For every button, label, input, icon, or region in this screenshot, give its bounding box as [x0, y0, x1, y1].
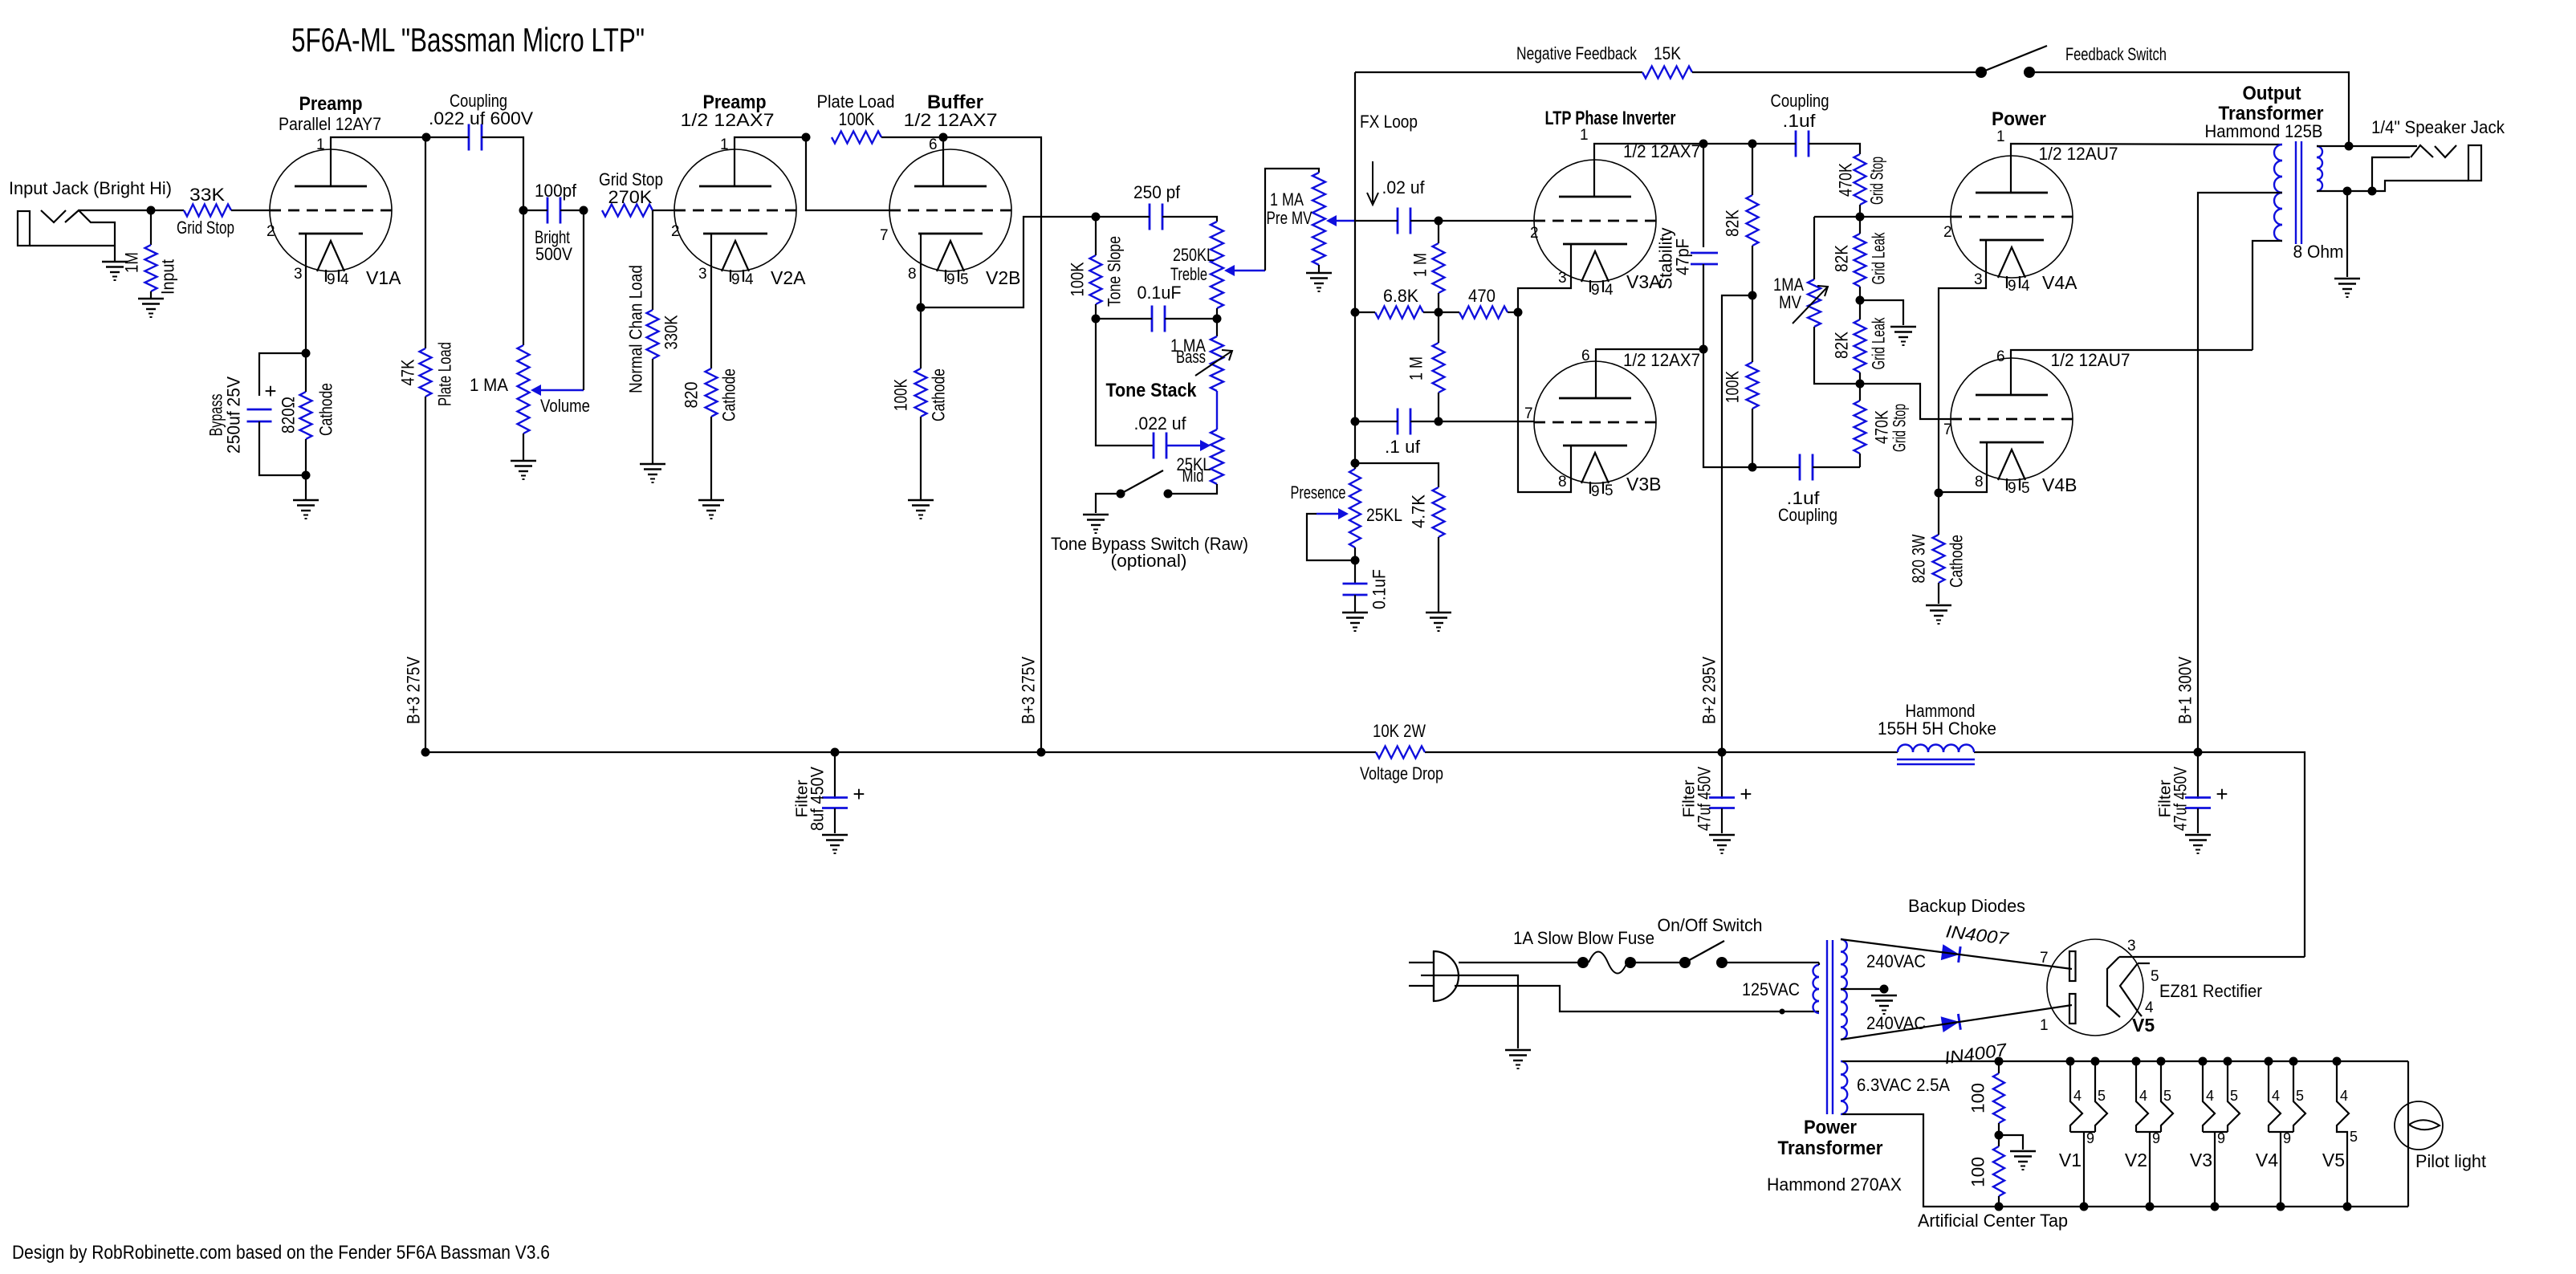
- label 100K (plate V3B): [1723, 371, 1743, 403]
- svg-text:240VAC: 240VAC: [1866, 951, 1926, 971]
- label 8uf 450V: [808, 767, 828, 831]
- pin 5 V2B: [960, 271, 969, 288]
- switch lever (feedback): [1981, 46, 2047, 72]
- wire speaker ground link: [2347, 190, 2372, 192]
- svg-text:5: 5: [2350, 1129, 2358, 1145]
- wire coupling lower to 470K: [1813, 466, 1860, 468]
- junction V2B cathode: [917, 303, 926, 312]
- wiper arrow volume: [531, 385, 584, 396]
- svg-text:5: 5: [960, 271, 969, 288]
- ground (power cathode): [1926, 605, 1951, 624]
- label V3A: [1626, 271, 1662, 292]
- ground (Pre MV): [1306, 273, 1332, 291]
- wiper arrow mid: [1166, 440, 1211, 451]
- label 100 (lower): [1968, 1157, 1988, 1187]
- svg-text:100: 100: [1968, 1157, 1988, 1187]
- wire AC neutral: [1455, 986, 1819, 1011]
- svg-text:4: 4: [2021, 278, 2030, 295]
- svg-text:7: 7: [2040, 950, 2049, 967]
- pin 1 V2A: [720, 136, 729, 153]
- svg-text:2: 2: [1943, 224, 1952, 241]
- svg-text:5: 5: [2163, 1088, 2171, 1104]
- junction heater 100 top: [1995, 1057, 2004, 1066]
- capacitor .022uf mid: [1154, 433, 1166, 459]
- label Tone Bypass Switch (Raw): [1051, 534, 1248, 554]
- wire B+2 feed: [1722, 295, 1752, 752]
- svg-text:Grid Stop: Grid Stop: [1890, 404, 1910, 452]
- svg-text:V2B: V2B: [986, 267, 1020, 288]
- wire coupling upper to 470K: [1809, 144, 1860, 154]
- resistor 15K feedback: [1642, 67, 1692, 79]
- pin 6 V2B: [929, 136, 938, 153]
- svg-text:V5: V5: [2132, 1015, 2155, 1036]
- svg-text:Mid: Mid: [1182, 466, 1204, 486]
- label 250 pf: [1133, 182, 1181, 202]
- plus sign (filter 47uf B+2): [1740, 782, 1752, 806]
- wire HV bottom to EZ81 pin1: [1841, 1005, 2072, 1040]
- svg-text:1: 1: [316, 136, 325, 153]
- wiper arrow treble: [1224, 265, 1265, 276]
- pin 9 V1A: [327, 271, 336, 288]
- label 500V: [535, 244, 572, 264]
- switch lever (on/off): [1685, 941, 1724, 963]
- junction neutral small: [1780, 1009, 1785, 1015]
- resistor 270K Grid Stop: [602, 205, 653, 217]
- svg-text:1/2 12AX7: 1/2 12AX7: [904, 110, 998, 130]
- ground (filter 47uf B+2): [1709, 835, 1735, 853]
- label 470K (lower): [1872, 410, 1892, 444]
- wire bypass cap to bottom: [259, 421, 306, 475]
- heater V1: [2059, 1057, 2107, 1211]
- pin 9 V3A: [1591, 282, 1600, 299]
- capacitor Coupling .1uf (upper): [1796, 131, 1809, 157]
- wire .1uf left stub: [1355, 421, 1398, 422]
- label V4A: [2042, 272, 2077, 293]
- label Hammond 270AX: [1767, 1174, 1902, 1195]
- speaker jack spring contact: [2435, 145, 2456, 157]
- wire V3B plate down: [1703, 349, 1752, 467]
- svg-text:6.8K: 6.8K: [1383, 286, 1418, 306]
- wire B+ rail right: [1974, 752, 2305, 957]
- wire coupling cap to bright node: [482, 137, 523, 210]
- arrow MV (variable): [1793, 286, 1828, 324]
- svg-text:8: 8: [1558, 474, 1567, 490]
- svg-text:Negative Feedback: Negative Feedback: [1516, 43, 1638, 63]
- label 100K (tone slope): [1068, 262, 1088, 296]
- svg-text:4: 4: [2139, 1088, 2147, 1104]
- svg-text:Cathode: Cathode: [1947, 535, 1967, 588]
- label V2A: [771, 267, 806, 288]
- svg-text:5: 5: [2021, 480, 2030, 497]
- svg-text:8: 8: [1975, 474, 1984, 490]
- svg-text:V2: V2: [2125, 1150, 2147, 1170]
- svg-text:V5: V5: [2322, 1150, 2345, 1170]
- wire bright cap right stub: [560, 210, 584, 211]
- label 1/2 12AX7 (V2A): [681, 110, 775, 130]
- label Plate Load bold: [817, 92, 895, 112]
- svg-text:47uf 450V: 47uf 450V: [1695, 767, 1715, 831]
- junction tone bypass switch right: [1164, 490, 1173, 499]
- pin 5 V3B: [1605, 482, 1614, 499]
- ground (V1A cathode): [293, 500, 319, 519]
- title text: [291, 21, 645, 59]
- label 1A Slow Blow Fuse: [1513, 928, 1654, 948]
- tube V3B (1/2 12AX7 PI): [1534, 361, 1656, 494]
- label Tone Slope: [1105, 236, 1125, 307]
- svg-text:LTP Phase Inverter: LTP Phase Inverter: [1545, 108, 1676, 129]
- junction V3A plate at 2122: [1699, 140, 1708, 149]
- svg-text:1/2 12AU7: 1/2 12AU7: [2051, 350, 2130, 370]
- svg-text:1A Slow Blow Fuse: 1A Slow Blow Fuse: [1513, 928, 1654, 948]
- junction power cathode: [1935, 489, 1943, 498]
- junction .1uf left: [1351, 417, 1360, 426]
- tube V1A (parallel 12AY7 triode): [270, 149, 392, 282]
- svg-text:82K: 82K: [1832, 332, 1852, 359]
- label Filter (8uf): [794, 779, 812, 817]
- wire switch to ground: [1096, 494, 1121, 513]
- capacitor Filter 47uf B+1: [2185, 752, 2211, 833]
- svg-text:+: +: [853, 782, 865, 806]
- resistor 1M upper: [1433, 221, 1445, 312]
- wire grid node to V3A: [1439, 220, 1534, 222]
- svg-text:8uf 450V: 8uf 450V: [808, 767, 828, 831]
- label 100pf: [535, 181, 577, 201]
- wire B+ rail mid: [1425, 751, 1898, 753]
- wire 270K to 330K: [652, 210, 653, 310]
- label 1 M (upper): [1410, 253, 1430, 277]
- capacitor Bright 100pf 500V: [547, 197, 560, 224]
- svg-text:+: +: [2216, 782, 2228, 806]
- svg-text:1: 1: [1996, 128, 2005, 145]
- label Mid: [1182, 466, 1204, 486]
- wire speaker jack ground drop: [2346, 191, 2348, 277]
- diode IN4007 (lower): [1941, 1014, 1961, 1032]
- label Preamp (V1A) bold: [299, 93, 363, 115]
- capacitor Filter 47uf B+2: [1709, 752, 1735, 833]
- ground (V2A cathode): [698, 500, 724, 519]
- svg-text:0.1uF: 0.1uF: [1137, 283, 1182, 303]
- wire cathode to bypass cap: [259, 353, 306, 396]
- label 1 MA (bass): [1170, 336, 1206, 356]
- label .1uf (upper): [1783, 111, 1817, 131]
- svg-text:Grid Leak: Grid Leak: [1869, 317, 1889, 370]
- label EZ81 Rectifier: [2159, 981, 2262, 1001]
- wire fuse to switch: [1630, 962, 1685, 963]
- svg-text:4: 4: [1605, 282, 1614, 299]
- svg-text:1 MA: 1 MA: [470, 375, 508, 395]
- junction tone node A: [1092, 213, 1101, 222]
- label Stability: [1656, 228, 1676, 290]
- wire bright cap left stub: [523, 210, 547, 211]
- label Treble: [1170, 264, 1207, 284]
- svg-text:5: 5: [2296, 1088, 2304, 1104]
- junction bright right node: [580, 206, 588, 215]
- wire stability cap bottom: [1703, 264, 1704, 349]
- label 4.7K: [1409, 495, 1429, 528]
- pin 4 V3A: [1605, 282, 1614, 299]
- junction presence bottom: [1351, 556, 1360, 565]
- svg-text:3: 3: [1558, 270, 1567, 287]
- label Feedback Switch: [2065, 44, 2167, 64]
- label MV: [1779, 292, 1801, 312]
- label 8 Ohm: [2293, 242, 2344, 262]
- capacitor Filter 8uf: [822, 752, 848, 833]
- inductor Hammond 155H choke: [1897, 745, 1975, 765]
- junction V1A cathode: [302, 349, 311, 358]
- wire input jack tip to grid-stop: [79, 210, 184, 211]
- label 1/4 Speaker Jack: [2371, 117, 2505, 137]
- fuse 1A slow blow: [1589, 952, 1627, 974]
- svg-text:+: +: [264, 379, 276, 403]
- svg-text:100K: 100K: [1068, 262, 1088, 296]
- label Pilot light: [2415, 1151, 2486, 1171]
- label Presence: [1291, 482, 1346, 503]
- junction B+2 node: [1748, 291, 1757, 300]
- pin 9 V4B: [2008, 480, 2016, 497]
- svg-text:Input Jack (Bright Hi): Input Jack (Bright Hi): [9, 178, 172, 198]
- wire HV top to EZ81 pin7: [1841, 939, 2072, 969]
- svg-text:820Ω: 820Ω: [279, 397, 299, 433]
- svg-text:4: 4: [340, 271, 349, 288]
- svg-text:9: 9: [2008, 278, 2016, 295]
- svg-text:.1uf: .1uf: [1783, 111, 1817, 131]
- svg-text:250 pf: 250 pf: [1133, 182, 1181, 202]
- wire .02uf to V3A grid node: [1410, 220, 1439, 222]
- wire V1A plate lead pin1: [331, 137, 426, 186]
- label Hammond 125B: [2205, 121, 2323, 141]
- label B+3 275V (right): [1019, 657, 1039, 724]
- pin 9 V4A: [2008, 278, 2016, 295]
- arrow FX loop annotation: [1367, 161, 1378, 205]
- svg-text:15K: 15K: [1654, 43, 1681, 63]
- label Coupling: [450, 91, 507, 111]
- svg-text:Grid Stop: Grid Stop: [1867, 157, 1887, 205]
- wire MV top: [1813, 217, 1815, 279]
- ground (1M input): [138, 299, 164, 317]
- heater V2: [2125, 1057, 2173, 1211]
- svg-text:3: 3: [2127, 938, 2136, 954]
- svg-text:10K 2W: 10K 2W: [1373, 721, 1426, 741]
- label 270K: [608, 187, 653, 207]
- label 100K (V2B cathode): [891, 379, 911, 411]
- svg-text:0.1uF: 0.1uF: [1369, 569, 1390, 609]
- svg-text:Plate Load: Plate Load: [435, 342, 455, 406]
- label Filter (47uf B+1): [2157, 779, 2175, 817]
- pin 3 V4A: [1974, 271, 1983, 288]
- wire 33K to V1A grid: [231, 210, 270, 211]
- label 25KL: [1177, 454, 1211, 474]
- wire FX loop / feedback line: [1354, 72, 1356, 469]
- svg-text:Treble: Treble: [1170, 264, 1207, 284]
- pilot light: [2395, 1101, 2443, 1150]
- junction speaker ground B: [2368, 187, 2377, 196]
- ground (presence cap): [1342, 613, 1368, 631]
- label V5 (EZA1): [2132, 1015, 2155, 1036]
- label Bass: [1176, 347, 1206, 367]
- ground (filter 8uf): [822, 835, 848, 853]
- pin 7 V2B: [880, 227, 889, 244]
- wiper arrow Pre MV: [1326, 215, 1355, 226]
- wire plate node to coupling cap: [426, 136, 469, 138]
- label 1/2 12AX7 (V3A): [1623, 141, 1700, 161]
- svg-text:1: 1: [2040, 1017, 2049, 1034]
- junction V3A grid node: [1435, 217, 1443, 226]
- label IN4007 (lower): [1943, 1040, 2009, 1068]
- svg-text:Preamp: Preamp: [299, 93, 363, 115]
- svg-text:1/4" Speaker Jack: 1/4" Speaker Jack: [2371, 117, 2505, 137]
- label 155H 5H Choke: [1878, 718, 1996, 739]
- label .022 uf: [1134, 413, 1187, 433]
- pin 8 V3B: [1558, 474, 1567, 490]
- junction speaker ground A: [2343, 187, 2352, 196]
- label Hammond (choke): [1906, 701, 1976, 721]
- svg-text:Power: Power: [1804, 1117, 1857, 1138]
- svg-text:4: 4: [2272, 1088, 2280, 1104]
- label 82K (grid leak upper): [1832, 245, 1852, 272]
- svg-text:Grid Stop: Grid Stop: [177, 218, 234, 238]
- speaker jack tip contact: [2411, 145, 2433, 157]
- svg-text:330K: 330K: [661, 315, 682, 349]
- svg-text:V3: V3: [2190, 1150, 2212, 1170]
- label Cathode (power): [1947, 535, 1967, 588]
- pin 8 V2B: [908, 266, 917, 283]
- wire plate node to coupling upper: [1752, 143, 1796, 144]
- wire OT primary bottom to V4B plate: [2252, 241, 2282, 350]
- label 33K: [189, 185, 225, 205]
- resistor 4.7K: [1433, 487, 1445, 537]
- wire FX line to .02uf: [1355, 220, 1398, 222]
- svg-text:1: 1: [1580, 127, 1589, 144]
- resistor 100K plate (V3B): [1747, 295, 1759, 467]
- junction grid leak mid: [1856, 296, 1865, 305]
- junction hum bottom: [1995, 1203, 2004, 1211]
- junction 470 right / tail: [1514, 308, 1523, 317]
- label 820 ohm: [279, 397, 299, 433]
- wire V3A plate to 82K: [1703, 143, 1752, 144]
- label Artificial Center Tap: [1918, 1211, 2068, 1231]
- ground (tone bypass): [1083, 515, 1109, 533]
- label 820 (V2A): [682, 382, 702, 409]
- label V2B: [986, 267, 1020, 288]
- label 1 M (lower): [1406, 356, 1426, 381]
- svg-text:Voltage Drop: Voltage Drop: [1360, 763, 1443, 784]
- label Buffer bold: [927, 92, 983, 113]
- resistor 82K Grid Leak (upper): [1854, 217, 1866, 300]
- svg-text:Power: Power: [1992, 108, 2046, 130]
- svg-text:Coupling: Coupling: [1778, 505, 1837, 525]
- plus sign bypass cap: [264, 379, 276, 403]
- wire PT primary top lead: [1818, 963, 1820, 965]
- footer text: [12, 1242, 550, 1264]
- ground (V2B cathode): [908, 500, 934, 519]
- wire V2A plate to V2B grid: [806, 137, 889, 210]
- label Preamp (V2A) bold: [703, 92, 767, 113]
- resistor 33K Grid Stop: [184, 205, 231, 217]
- wire 4.7K to ground: [1438, 537, 1439, 612]
- pin 6 V3B: [1581, 348, 1590, 364]
- wire hum center to ground: [1999, 1135, 2023, 1150]
- speaker jack sleeve: [2468, 145, 2481, 181]
- AC plug: [1409, 951, 1459, 1001]
- wire V4A cathode: [1939, 240, 1986, 492]
- wire feedback to switch: [1692, 71, 1981, 73]
- wire 250pf to treble pot: [1162, 217, 1217, 222]
- wire 470K to V4A grid node: [1859, 205, 1861, 217]
- svg-text:+: +: [1740, 782, 1752, 806]
- svg-text:On/Off Switch: On/Off Switch: [1658, 915, 1763, 935]
- label 240VAC (upper): [1866, 951, 1926, 971]
- wire to ground (V1A cathode): [305, 475, 307, 499]
- svg-text:1 M: 1 M: [1410, 253, 1430, 277]
- svg-text:Cathode: Cathode: [316, 383, 336, 436]
- label 47uf 450V: [1695, 767, 1715, 831]
- wire V3A cathode to tail: [1518, 244, 1571, 312]
- wire AC ground prong: [1434, 975, 1518, 1048]
- resistor 470K Grid Stop (V4B): [1854, 384, 1866, 467]
- svg-text:1M: 1M: [122, 252, 142, 273]
- svg-text:Pilot light: Pilot light: [2415, 1151, 2486, 1171]
- junction 6.8K left: [1351, 308, 1360, 317]
- wire presence cap to ground: [1354, 595, 1356, 612]
- junction HV center tap: [1880, 985, 1889, 994]
- svg-text:Design by RobRobinette.com bas: Design by RobRobinette.com based on the …: [12, 1242, 550, 1264]
- potentiometer 1MA Pre MV: [1312, 173, 1325, 265]
- label 82K (plate): [1723, 210, 1743, 237]
- pin 3 V5: [2127, 938, 2136, 954]
- wire 47K to B+3 rail: [425, 397, 426, 752]
- svg-text:V4A: V4A: [2042, 272, 2077, 293]
- svg-text:Presence: Presence: [1291, 482, 1346, 503]
- svg-text:1 MA: 1 MA: [1270, 189, 1304, 210]
- junction B+1 rail node: [2194, 748, 2203, 757]
- svg-text:.022 uf: .022 uf: [1134, 413, 1187, 433]
- wire pilot light vertical: [2407, 1061, 2409, 1207]
- svg-text:Pre MV: Pre MV: [1267, 208, 1312, 228]
- svg-text:47uf 450V: 47uf 450V: [2171, 767, 2191, 831]
- label 1 MA (volume): [470, 375, 508, 395]
- wire V2A 820 to ground: [710, 417, 712, 499]
- svg-text:9: 9: [2283, 1130, 2291, 1146]
- svg-text:.1 uf: .1 uf: [1385, 437, 1421, 457]
- svg-text:6: 6: [1581, 348, 1590, 364]
- pin 9 V2B: [946, 271, 955, 288]
- svg-text:100K: 100K: [839, 109, 875, 129]
- pin 4 V1A: [340, 271, 349, 288]
- svg-text:82K: 82K: [1832, 245, 1852, 272]
- svg-text:V4B: V4B: [2042, 474, 2077, 495]
- svg-text:6.3VAC 2.5A: 6.3VAC 2.5A: [1857, 1075, 1950, 1095]
- label V1A: [366, 267, 401, 288]
- pin 2 V4A: [1943, 224, 1952, 241]
- potentiometer 1MA Volume: [518, 345, 530, 433]
- label Bright: [535, 227, 570, 247]
- resistor 100 (upper hum): [1993, 1061, 2004, 1134]
- power transformer Hammond 270AX (coils and core): [1813, 939, 1848, 1114]
- wire negative feedback left: [1355, 71, 1642, 73]
- label V3B: [1626, 474, 1661, 495]
- wire V2B plate supply: [943, 137, 1041, 752]
- label Negative Feedback: [1516, 43, 1638, 63]
- junction B+3 right node: [1037, 748, 1046, 757]
- label 6.3VAC 2.5A: [1857, 1075, 1950, 1095]
- wire treble wiper to Pre MV top: [1265, 169, 1319, 271]
- svg-text:4: 4: [2340, 1088, 2348, 1104]
- label 1/2 12AX7 (V3B): [1623, 350, 1700, 370]
- wire V2B cathode to tone stack: [921, 217, 1096, 307]
- wire 6.3 bottom lead: [1842, 1114, 2408, 1207]
- svg-text:4: 4: [2145, 999, 2154, 1016]
- resistor 100K Plate Load: [832, 132, 881, 144]
